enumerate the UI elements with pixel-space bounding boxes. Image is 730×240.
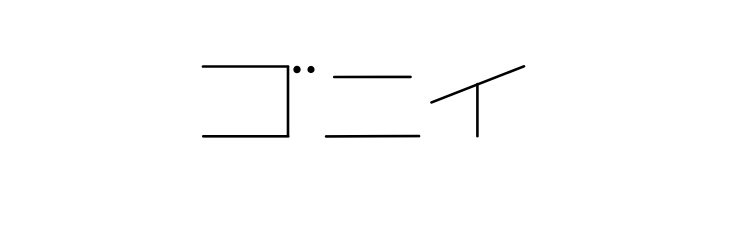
junction dot 2 (dakuten right dot) <box>307 66 314 73</box>
wire: lower middle horizontal (katakana ni bottom stroke) <box>326 135 419 138</box>
wire: top horizontal of left bracket (katakana ko top stroke) <box>203 65 288 68</box>
wire: diagonal (katakana i slant stroke) <box>432 66 525 102</box>
wire: bottom horizontal of left bracket (katakana ko bottom stroke) <box>203 135 288 138</box>
wire: right vertical drop (katakana i vertical stroke) <box>476 84 479 136</box>
wire: right vertical of left bracket (katakana ko right stroke) <box>287 67 290 137</box>
junction dot 1 (dakuten left dot) <box>293 66 300 73</box>
wire: upper middle horizontal (katakana ni top stroke) <box>334 76 410 79</box>
